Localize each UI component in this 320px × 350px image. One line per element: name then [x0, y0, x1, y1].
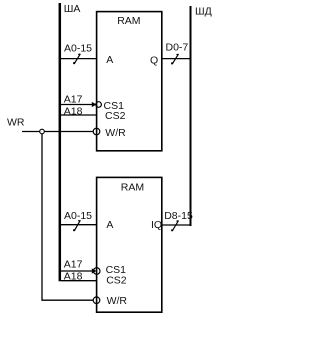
- address bus ША: [59, 3, 62, 281]
- svg-text:A17: A17: [64, 258, 83, 270]
- inversion bubble U2 CS1: [93, 268, 100, 275]
- RAM U2: [97, 177, 162, 312]
- svg-text:W/R: W/R: [105, 127, 126, 139]
- arrowhead A17 U1: [92, 102, 97, 107]
- bus width slash A0-15 U1: [75, 54, 81, 63]
- svg-text:D0-7: D0-7: [166, 41, 189, 53]
- inversion bubble U1 W/R: [93, 128, 100, 135]
- wire WR drop to U2 W/R: [42, 134, 93, 300]
- svg-text:A: A: [106, 219, 113, 231]
- svg-text:CS2: CS2: [105, 110, 126, 122]
- svg-text:WR: WR: [7, 116, 25, 128]
- svg-text:A18: A18: [64, 270, 83, 282]
- svg-text:RAM: RAM: [117, 15, 140, 27]
- bus width slash D0-7: [173, 54, 179, 64]
- svg-text:A0-15: A0-15: [64, 43, 92, 55]
- wire A17 to U1.CS1: [61, 104, 94, 106]
- wire A17 to U2.CS1: [61, 270, 94, 272]
- wire WR: [22, 131, 93, 133]
- svg-text:ШД: ШД: [195, 6, 212, 18]
- RAM U1: [97, 12, 162, 151]
- wire A18 to U2.CS2: [61, 280, 97, 282]
- wire A0-15 to U2.A: [61, 224, 97, 226]
- junction node WR: [40, 129, 45, 134]
- bus width slash A0-15 U2: [75, 220, 81, 230]
- inversion bubble U1 CS1: [96, 102, 102, 108]
- svg-text:IQ: IQ: [151, 219, 162, 231]
- svg-text:D8-15: D8-15: [164, 210, 193, 222]
- svg-text:CS2: CS2: [106, 275, 127, 287]
- svg-text:A: A: [106, 54, 113, 66]
- wire U1.Q to ШД D0-7: [162, 58, 190, 60]
- wire U2.IQ to ШД D8-15: [162, 224, 190, 226]
- svg-text:A18: A18: [64, 105, 83, 117]
- inversion bubble U2 W/R: [93, 297, 100, 304]
- svg-text:ША: ША: [64, 3, 81, 15]
- data bus ШД: [190, 6, 192, 226]
- svg-text:W/R: W/R: [107, 295, 128, 307]
- svg-text:A17: A17: [64, 94, 83, 106]
- wire A0-15 to U1.A: [61, 58, 97, 60]
- bus width slash D8-15: [173, 221, 179, 231]
- arrowhead A17 U2: [92, 268, 97, 273]
- wire A18 to U1.CS2: [61, 114, 97, 116]
- svg-text:RAM: RAM: [121, 182, 144, 194]
- svg-text:Q: Q: [150, 54, 158, 66]
- svg-text:A0-15: A0-15: [64, 210, 92, 222]
